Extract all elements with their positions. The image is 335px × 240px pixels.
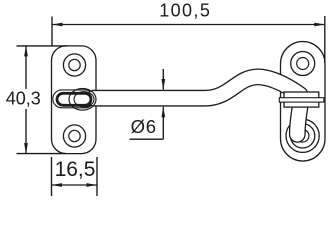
right plate top screw hole inner	[297, 58, 309, 70]
eye loop of rod at left plate (thick ring)	[57, 93, 91, 105]
svg-text:100,5: 100,5	[159, 1, 211, 21]
staple pin band	[279, 98, 324, 102]
eye loop wrap arc outer	[69, 89, 96, 111]
left plate bottom screw hole inner	[69, 130, 80, 141]
extension line right of dim 16,5	[96, 157, 98, 196]
dimension line 40,3 upper segment	[25, 46, 27, 89]
left plate top screw hole inner	[69, 59, 80, 70]
extension line left of dim 16,5	[51, 157, 53, 196]
svg-text:Ø6: Ø6	[131, 116, 157, 137]
right mounting plate	[281, 42, 326, 162]
arrowhead right of dim 100,5	[314, 23, 325, 27]
extension line left of dim 100,5	[51, 17, 53, 47]
hook rod (black outline)	[94, 77, 301, 134]
arrowhead top of dim 40,3	[24, 46, 28, 57]
arrowhead left of dim 16,5	[52, 183, 63, 187]
underline of Ø6 label	[130, 138, 164, 140]
arrowhead upper of dim Ø6 (points down to rod top)	[161, 79, 165, 90]
slot in left plate	[53, 90, 94, 108]
dimension line 16,5	[52, 184, 98, 186]
arrowhead left of dim 100,5	[52, 23, 63, 27]
top extension line of dim 40,3	[17, 45, 68, 47]
leader line of dim Ø6 lower segment	[162, 107, 164, 139]
dimension line 40,3 lower segment	[25, 109, 27, 154]
arrowhead lower of dim Ø6 (points up to rod bottom)	[161, 107, 165, 118]
eye loop wrap arc inner	[74, 92, 94, 107]
extension line right of dim 100,5	[324, 16, 326, 63]
dimension graphics	[17, 16, 325, 196]
dimension line 100,5	[52, 24, 325, 26]
bottom extension line of dim 40,3	[17, 153, 67, 155]
arrowhead bottom of dim 40,3	[24, 143, 28, 154]
staple bracket on right plate	[284, 92, 319, 107]
leader line of dim Ø6 upper segment	[162, 69, 164, 90]
arrowhead right of dim 16,5	[87, 183, 98, 187]
svg-text:16,5: 16,5	[55, 158, 96, 181]
left plate top screw hole outer	[63, 54, 85, 76]
left mounting plate	[52, 46, 97, 154]
right plate bottom eye ring inner	[296, 130, 309, 143]
right plate bottom eye ring outer	[286, 119, 319, 152]
hook rod (white core)	[94, 77, 301, 134]
right plate bottom eye ring middle	[290, 124, 314, 148]
left plate bottom screw hole outer	[63, 125, 85, 147]
svg-text:40,3: 40,3	[6, 88, 41, 108]
right plate top screw hole outer	[291, 52, 315, 76]
